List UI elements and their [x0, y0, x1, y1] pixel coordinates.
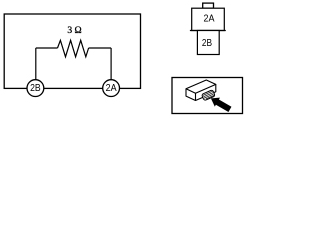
- connector cavity 2B: [197, 31, 219, 55]
- connector cavity 2A bottom flange: [190, 30, 226, 32]
- connector pin block tab: [203, 3, 214, 8]
- wire: [36, 47, 58, 49]
- terminal 2B: [27, 80, 44, 97]
- svg-text:2A: 2A: [204, 14, 215, 25]
- relay connector ribs: [202, 90, 216, 101]
- component location frame: [172, 78, 243, 114]
- svg-text:3 Ω: 3 Ω: [67, 25, 81, 36]
- wire: [89, 47, 112, 49]
- circuit outer loop wire: [4, 14, 140, 88]
- relay body (3D box): [186, 80, 216, 101]
- wire: [110, 48, 112, 80]
- svg-text:2B: 2B: [30, 83, 41, 94]
- svg-text:2A: 2A: [106, 83, 117, 94]
- wire: [35, 48, 37, 80]
- connector cavity 2A: [192, 8, 225, 30]
- pointer arrow: [208, 94, 232, 114]
- svg-text:2B: 2B: [202, 38, 212, 49]
- terminal 2A: [103, 80, 120, 97]
- resistor 3-ohm: [58, 40, 89, 57]
